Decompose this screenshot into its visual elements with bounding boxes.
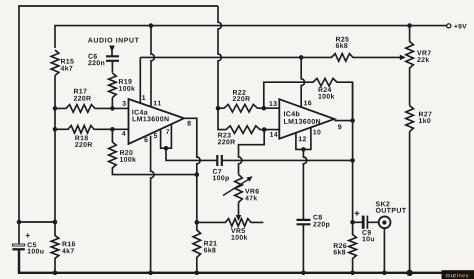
pot VR7	[406, 26, 414, 106]
pin 1 wire	[139, 57, 141, 103]
+9V terminal	[447, 24, 451, 28]
wire +9V rail	[55, 26, 447, 48]
capacitor C9	[353, 221, 379, 223]
pins 12,10 buffer link	[296, 128, 311, 150]
VR6 to VR5 wiper	[238, 202, 240, 215]
pin 16 wire (Iabc B)	[301, 57, 304, 107]
socket SK2 output	[379, 216, 391, 228]
op-amp IC4b	[279, 99, 334, 139]
resistor R18	[55, 126, 129, 134]
wire bias rail left	[54, 76, 56, 223]
wire C6 to R19	[111, 61, 113, 73]
pins 5,7 buffer link	[161, 124, 172, 148]
wire pin9 output net	[334, 120, 352, 122]
resistor R25	[301, 54, 402, 62]
wire bottom 0V rail	[19, 249, 445, 272]
pin 3	[122, 101, 125, 106]
resistor R22	[218, 104, 279, 112]
pin 14	[270, 132, 278, 137]
resistor R27	[406, 106, 414, 273]
wire C7 to output-B net	[222, 159, 353, 161]
resistor R21	[193, 222, 201, 272]
resistor R24 feedback	[264, 78, 353, 120]
op-amp IC4a	[129, 99, 185, 144]
wire R19 to pin3 node	[111, 98, 113, 109]
wire pin14 jog to VR6	[239, 130, 265, 175]
muzines watermark	[442, 270, 474, 279]
resistor R19	[109, 73, 117, 98]
pin 6 wire (V-)	[151, 136, 154, 273]
audio input terminal	[88, 38, 139, 43]
resistor R17	[55, 105, 129, 113]
pin 13	[269, 101, 276, 106]
resistor R23	[218, 108, 279, 133]
pot VR5	[197, 219, 263, 227]
resistor R26	[349, 222, 357, 272]
capacitor C5	[12, 244, 24, 246]
capacitor C6	[106, 56, 119, 61]
wire OTA-A output net	[166, 148, 217, 160]
pin 11 wire (V+)	[151, 26, 154, 107]
pot VR6	[235, 175, 243, 203]
wire top border (bias line)	[19, 6, 218, 245]
control line pin1 to R25	[140, 56, 301, 58]
wire bias node row	[19, 221, 55, 223]
resistor R20	[109, 129, 197, 174]
pin 8	[187, 121, 190, 126]
wire SK2 to 0V	[383, 229, 385, 273]
wire bias feed to R22/R23	[218, 6, 221, 108]
resistor R15	[51, 50, 59, 76]
resistor R16	[51, 222, 59, 273]
pin 9	[338, 124, 341, 129]
capacitor C7	[217, 155, 222, 166]
wire pin8 buffer out net	[184, 118, 200, 222]
capacitor C8	[297, 220, 311, 224]
wire C8 to 0V	[302, 224, 304, 272]
wire pin12/10 to C8	[303, 149, 306, 219]
pin 4	[122, 131, 126, 136]
